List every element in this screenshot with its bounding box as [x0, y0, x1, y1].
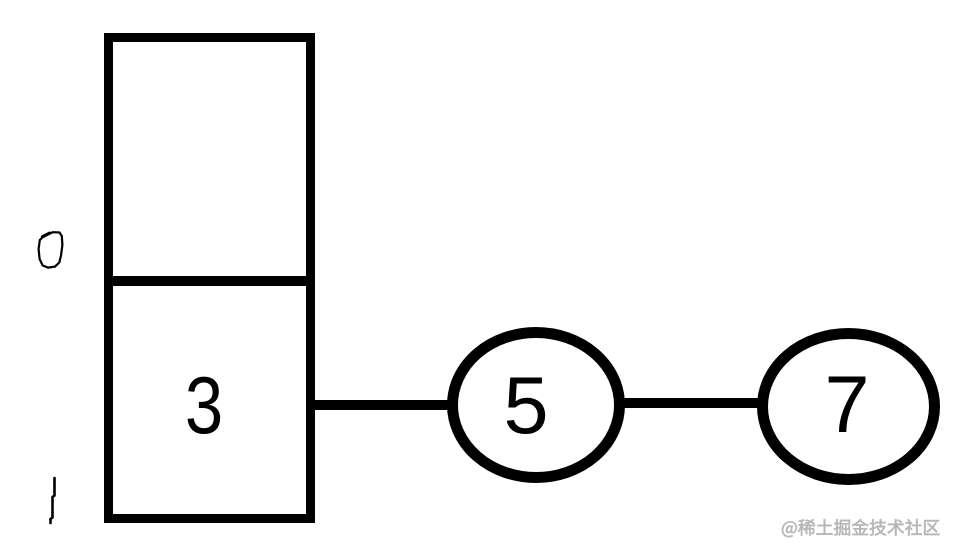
- svg-text:5: 5: [503, 361, 548, 451]
- label 0 (handwritten): [39, 232, 63, 267]
- node 5 ellipse: [453, 333, 620, 478]
- wire from node 5 to node 7: [622, 398, 762, 408]
- bucket array rectangle: [109, 38, 311, 519]
- watermark @稀土掘金技术社区: [782, 519, 939, 537]
- node 7 ellipse: [763, 334, 935, 480]
- svg-text:7: 7: [824, 360, 869, 450]
- divider between cell 0 and cell 1: [104, 276, 315, 286]
- svg-text:3: 3: [185, 360, 223, 451]
- label 1 (handwritten): [51, 478, 55, 523]
- wire from cell 1 to node 5: [311, 400, 455, 410]
